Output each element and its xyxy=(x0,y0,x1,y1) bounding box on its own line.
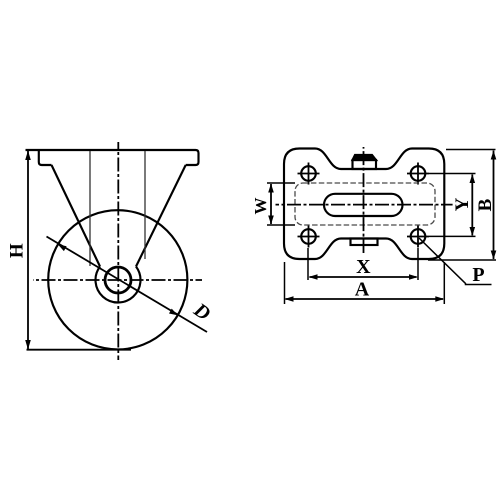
svg-text:H: H xyxy=(7,243,28,258)
svg-text:P: P xyxy=(472,264,484,286)
svg-text:Y: Y xyxy=(452,197,473,211)
svg-text:B: B xyxy=(475,198,496,211)
svg-text:X: X xyxy=(356,256,371,278)
svg-text:A: A xyxy=(355,279,370,301)
svg-text:W: W xyxy=(251,198,270,215)
